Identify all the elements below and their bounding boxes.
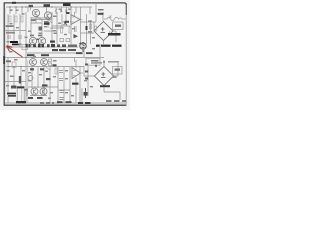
input jack box: [17, 87, 24, 103]
transistor Q1: [32, 9, 39, 16]
wire Q1 base drop: [31, 8, 47, 13]
op-amp triangle Q8: [71, 15, 80, 25]
wire top bus drops mid: [56, 7, 76, 14]
wire left lower verticals: [8, 31, 20, 47]
wire diamond1 right vertex down: [109, 31, 111, 33]
small boxes right of Q10: [49, 59, 52, 62]
border frame right dark top segment: [125, 5, 127, 15]
wire right column verticals top: [81, 4, 97, 44]
center band blob 2: [33, 44, 36, 47]
scattered small text marks mid: [19, 16, 96, 99]
resistor R1: [9, 16, 11, 22]
small text right column top: [98, 9, 104, 11]
label left lower text: [6, 32, 15, 34]
label near x30 top: [29, 5, 34, 7]
center band blob 5: [51, 44, 55, 47]
wire right of input box: [26, 88, 28, 96]
transistor Q9: [30, 59, 37, 66]
wire top bus: [6, 6, 92, 8]
dark label right of diamond1: [108, 33, 121, 36]
label left volume text: [6, 25, 14, 27]
speaker label under diamond1: [96, 45, 122, 47]
border frame left: [3, 3, 5, 105]
center band text row2 b: [68, 49, 76, 51]
node junction dots: [9, 6, 71, 103]
center band label row3 a: [27, 54, 35, 56]
scattered small text marks left column: [6, 9, 25, 86]
double vertical right of left column: [27, 60, 29, 103]
text above Q3 Q4: [30, 35, 34, 37]
wire bottom channel h segments: [5, 82, 70, 96]
wire right mid verticals: [80, 44, 100, 103]
dark squiggle component bottom right: [85, 88, 87, 98]
speaker label under diamond2: [100, 85, 110, 87]
wire center band rails: [5, 47, 104, 58]
center band blob 4: [47, 44, 50, 47]
dash below diamond2 box: [112, 77, 117, 78]
resistor R13 zigzag: [55, 8, 57, 13]
center band label row3 b: [41, 54, 49, 56]
bottom dashed line right: [106, 100, 126, 102]
wire bottom channel bus: [5, 67, 126, 104]
dark mark below bus center: [66, 12, 70, 14]
transistor Q6: [31, 88, 38, 95]
tiny text marks top bus: [59, 9, 62, 10]
small boxes near center band: [60, 39, 64, 42]
dark text left of cap column: [53, 64, 57, 66]
misc dark marks bottom channel: [30, 68, 34, 70]
resistor R10: [55, 68, 57, 74]
label under T5 right: [86, 52, 93, 54]
dark transistor T5: [80, 43, 86, 49]
input jack text bottom left: [7, 93, 16, 95]
diamond1 inner mark: [101, 27, 106, 32]
bridge rectifier diamond B1: [94, 22, 113, 41]
center band blob 7: [62, 44, 66, 47]
mark above input text: [11, 86, 17, 89]
diamond2 inner mark: [101, 72, 106, 77]
wire q8 leads: [70, 12, 75, 32]
wire diamond2 leads: [84, 60, 120, 100]
border frame top: [4, 3, 127, 5]
wire top bus drops left: [10, 7, 28, 14]
text top right of diamond2: [108, 61, 119, 63]
center band blob 8: [68, 45, 77, 47]
border frame right light: [125, 5, 127, 105]
capacitor C1: [7, 36, 11, 38]
resistor R3: [21, 16, 23, 22]
capacitor C5: [60, 91, 64, 93]
op-amp triangle Q5: [72, 68, 81, 79]
resistor R2: [15, 16, 17, 22]
center band text row2 a: [52, 49, 58, 51]
label above Q6 row: [42, 84, 48, 86]
bottom bus labels center: [57, 101, 63, 103]
dark dashes on bottom bus: [40, 102, 54, 104]
small text left edge of center band: [50, 41, 55, 43]
wire right h segments top: [81, 22, 97, 33]
tick between Q3 Q4: [37, 39, 39, 41]
diode D2: [61, 9, 63, 13]
resistor on right column: [90, 24, 92, 29]
label Q2 designator: [44, 4, 51, 7]
wire left horizontal: [5, 30, 26, 32]
wire bottom channel verticals: [8, 58, 82, 103]
wire diagonals: [29, 16, 52, 47]
capacitor C6: [60, 98, 64, 100]
junction dots bottom bus: [8, 66, 9, 67]
capacitor C2: [18, 36, 22, 38]
text left lower: [6, 60, 11, 62]
dark polygon near Q8 below: [74, 34, 79, 38]
wire top channel h segments: [31, 18, 70, 31]
bottom bus labels right: [78, 102, 83, 104]
value box right of diamond1: [113, 22, 124, 30]
border blotch left mid: [3, 56, 5, 64]
center band blob 1: [26, 44, 28, 48]
labels under Q6 Q7: [28, 97, 34, 99]
bridge rectifier diamond B2: [95, 67, 114, 86]
transistor Q2: [44, 12, 51, 19]
center band blob 6: [57, 44, 60, 47]
electrolytic cap dark bar left: [19, 76, 21, 84]
border frame bottom: [4, 104, 127, 106]
diode D3: [66, 9, 68, 13]
electrolytic cap C3 dark: [39, 27, 43, 31]
electrolytic cap C9: [86, 26, 88, 30]
gray box right of arrow: [22, 45, 28, 50]
wire left rail verticals: [8, 12, 26, 57]
diode chain right column: [85, 64, 88, 66]
center band blob 3: [38, 44, 41, 48]
transistor Q7: [40, 88, 47, 95]
wire top channel verticals: [31, 12, 76, 44]
resistor R11: [61, 27, 63, 33]
diagonal wire from Q10: [44, 66, 50, 71]
label top tick: [12, 2, 16, 4]
annotation text above arrow line2: [12, 44, 20, 46]
transistor Q3: [29, 37, 36, 44]
capacitor C8: [59, 79, 63, 81]
marks below cap C3: [39, 33, 42, 35]
red annotation arrow: [7, 46, 23, 57]
small box right of diamond2: [113, 67, 123, 75]
capacitor C7: [59, 71, 63, 73]
wire diamond1 leads: [103, 12, 116, 44]
text under Q1 Q2: [31, 19, 36, 21]
box with text right mid: [86, 58, 100, 65]
border inner shade left: [5, 8, 7, 100]
resistor R12: [69, 27, 71, 33]
transistor Q10: [41, 59, 48, 66]
label B+ supply: [63, 3, 71, 6]
misc mark x66 y22: [65, 21, 70, 23]
label under T5 left: [76, 52, 83, 54]
squiggle annotation top right: [104, 17, 126, 21]
transistor Q4: [38, 37, 45, 44]
label under Q5: [72, 83, 79, 85]
diode D1: [64, 22, 68, 26]
component box left lower: [12, 62, 16, 68]
junction dots near diamond2 top: [95, 65, 97, 67]
small transistor circle lower left: [28, 76, 33, 81]
dark label above Q4: [44, 22, 50, 25]
wire double line between stages: [31, 19, 52, 21]
annotation text above arrow line1: [10, 41, 18, 43]
